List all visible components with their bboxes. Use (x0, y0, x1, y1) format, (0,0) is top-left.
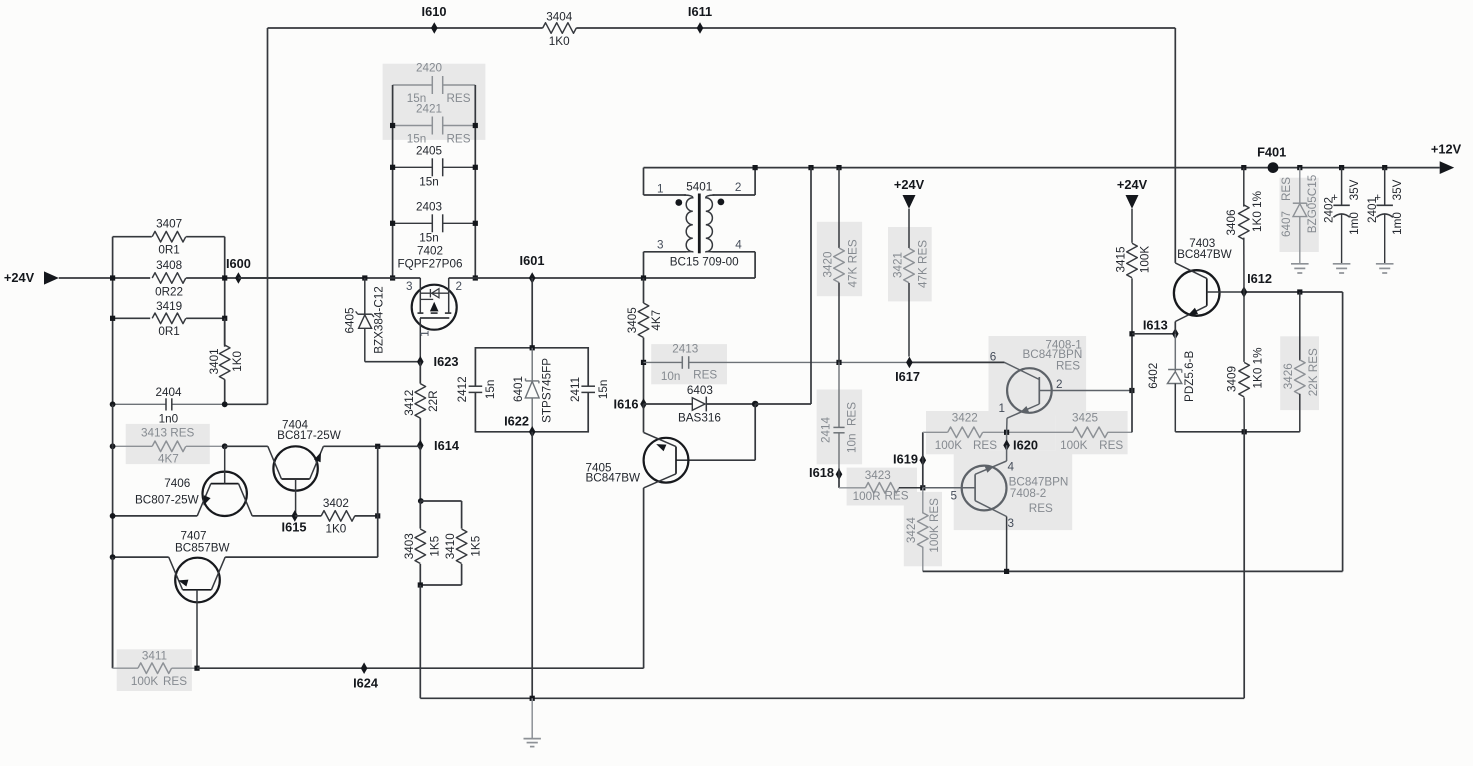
wire top-left drop (267, 28, 269, 404)
capacitor 2403 (393, 222, 433, 224)
node I610 (431, 22, 438, 34)
capacitor 2405 (393, 166, 433, 168)
svg-text:2: 2 (735, 181, 742, 194)
svg-text:2414: 2414 (819, 417, 832, 444)
svg-text:I617: I617 (895, 369, 920, 384)
transformer 5401 BC15 709-00 (644, 168, 756, 278)
svg-text:RES: RES (1056, 360, 1080, 373)
shade box 3423 (847, 468, 917, 506)
transformer bottom legs (644, 251, 687, 253)
svg-text:BC847BW: BC847BW (586, 471, 641, 484)
junction dot BAS316 cathode (752, 401, 759, 408)
resistor 3413 (RES) (113, 445, 153, 447)
svg-text:3: 3 (406, 280, 413, 293)
svg-text:3413 RES: 3413 RES (141, 427, 194, 440)
wire I612 row (1244, 291, 1343, 293)
resistor 3406 (1243, 168, 1245, 207)
node I600 (235, 272, 242, 284)
junction dot I613 row left (1129, 331, 1134, 336)
svg-text:2402: 2402 (1323, 197, 1336, 223)
svg-text:3403: 3403 (403, 533, 416, 559)
svg-text:100K: 100K (1060, 439, 1088, 452)
svg-text:I620: I620 (1013, 437, 1038, 452)
node I620 (1003, 440, 1010, 452)
capacitor 2412 (469, 385, 483, 387)
svg-text:3423: 3423 (865, 469, 891, 482)
svg-text:100K: 100K (131, 675, 159, 688)
svg-text:4K7: 4K7 (158, 452, 179, 465)
svg-text:1K5: 1K5 (469, 535, 482, 556)
svg-text:BZG05C15: BZG05C15 (1306, 174, 1319, 233)
svg-text:0R22: 0R22 (155, 285, 183, 298)
svg-text:BC807-25W: BC807-25W (135, 493, 199, 506)
resistor 3402 (295, 515, 322, 517)
svg-text:100K: 100K (1138, 246, 1151, 274)
svg-text:6401: 6401 (512, 376, 525, 402)
svg-text:10n: 10n (661, 370, 681, 383)
capacitor 2413 (RES) (644, 361, 683, 363)
svg-text:2403: 2403 (416, 200, 442, 213)
svg-text:I622: I622 (504, 414, 529, 429)
junction dot 7408-2 collector (1004, 569, 1009, 574)
svg-text:I623: I623 (434, 354, 459, 369)
wire transformer bottom rail (644, 277, 756, 279)
svg-text:22K RES: 22K RES (1307, 348, 1320, 396)
junction dot I620 top (1004, 430, 1009, 435)
capacitor 2404 (113, 403, 166, 405)
junction dots cap stack (390, 123, 395, 128)
shade box 3413 (126, 424, 210, 464)
svg-text:PDZ5.6-B: PDZ5.6-B (1183, 350, 1196, 402)
svg-text:3422: 3422 (952, 412, 978, 425)
node I624 (361, 662, 368, 674)
svg-text:4: 4 (735, 239, 742, 252)
resistor 3409 (1243, 292, 1245, 362)
wire 7403 emitter to I613 (1174, 322, 1176, 334)
svg-text:2: 2 (1056, 378, 1063, 391)
svg-text:1: 1 (657, 182, 664, 195)
wire I614 down (419, 445, 421, 501)
transistor 7406 BC807-25W (135, 446, 252, 516)
svg-text:3410: 3410 (444, 533, 457, 560)
wire left rail lower (112, 404, 114, 446)
junction dot 2413 row left (641, 360, 646, 365)
svg-text:3419: 3419 (156, 300, 182, 313)
svg-text:I614: I614 (434, 438, 460, 453)
svg-text:RES: RES (1280, 177, 1293, 201)
diode 6405 BZX384-C12 (362, 275, 367, 280)
svg-text:1K0: 1K0 (549, 35, 570, 48)
node I611 (697, 22, 704, 34)
svg-text:1n0: 1n0 (159, 412, 179, 425)
wire right loop up to I612 row (1342, 292, 1344, 571)
shade box 2413 (651, 344, 727, 384)
mosfet channel contacts (418, 312, 424, 314)
shade box 3426 (1280, 336, 1319, 410)
shade box 2414 (817, 390, 863, 465)
wire I619 vertical (922, 432, 924, 488)
node I617 (906, 357, 913, 369)
junction dot transformer bottom (641, 275, 646, 280)
svg-text:2404: 2404 (155, 386, 182, 399)
capacitor 2421 (RES) (393, 125, 433, 127)
svg-text:3405: 3405 (626, 307, 639, 334)
wire 7406 collector to I615 (252, 515, 295, 517)
svg-text:3407: 3407 (156, 218, 182, 231)
wire bottom ground rail (532, 697, 1244, 699)
svg-text:4K7: 4K7 (650, 310, 663, 331)
svg-text:BC15 709-00: BC15 709-00 (670, 255, 739, 268)
mosfet gate bar (420, 317, 449, 319)
svg-text:3: 3 (1008, 517, 1015, 530)
wire I624 rail (197, 667, 644, 669)
svg-text:1K0: 1K0 (326, 523, 347, 536)
wire I622 down to ground rail (531, 432, 533, 699)
wire 3403 bottom down to lowest rail (419, 585, 421, 698)
svg-text:+12V: +12V (1431, 141, 1462, 156)
wire x377 vertical (377, 446, 379, 557)
svg-text:+24V: +24V (894, 177, 925, 192)
diode 6401 STPS745FP (531, 348, 533, 381)
svg-text:6: 6 (990, 350, 997, 363)
svg-text:2405: 2405 (416, 144, 443, 157)
wire resistor bank left rail (112, 237, 114, 278)
wire resistor bank right rail (224, 237, 226, 278)
capacitor 2402 (1341, 168, 1343, 206)
svg-text:I613: I613 (1143, 318, 1168, 333)
svg-text:F401: F401 (1257, 144, 1286, 159)
svg-text:1: 1 (999, 402, 1006, 415)
transistor 7407 BC857BW (169, 530, 230, 669)
svg-text:+24V: +24V (4, 270, 35, 285)
resistor 3408 (152, 273, 186, 284)
svg-text:2: 2 (455, 280, 462, 293)
mosfet gate-substrate detail (420, 298, 433, 300)
svg-text:RES: RES (693, 368, 717, 381)
svg-text:2420: 2420 (416, 62, 443, 75)
svg-text:3409: 3409 (1225, 366, 1238, 392)
wire BAS316 node to top rail (755, 403, 811, 405)
transistor 7404 BC817-25W (268, 418, 341, 515)
svg-text:100K: 100K (935, 439, 963, 452)
svg-text:BC847BW: BC847BW (1177, 248, 1232, 261)
wire top rail I610-I611 (268, 27, 543, 29)
node I623 (417, 356, 424, 368)
shade box 3425 (1055, 411, 1127, 454)
svg-text:3404: 3404 (546, 10, 573, 23)
wire I613 row (1132, 333, 1175, 335)
junction dot 6401 top (530, 345, 535, 350)
svg-text:7402: 7402 (417, 245, 443, 258)
fuse point F401 (1268, 162, 1279, 173)
node I615 (292, 510, 299, 522)
svg-text:15n: 15n (484, 380, 497, 400)
wire I620 stub (1006, 432, 1008, 445)
shade box 3421 (888, 227, 932, 301)
wire I600 to mosfet (238, 277, 364, 279)
svg-text:3406: 3406 (1225, 209, 1238, 235)
shade box 2420/2421 (383, 64, 486, 140)
svg-text:3421: 3421 (891, 252, 904, 278)
svg-text:I600: I600 (226, 256, 251, 271)
svg-text:RES: RES (884, 489, 908, 502)
resistor 3405 (643, 278, 645, 303)
ground (2401) (1376, 263, 1394, 265)
resistor 3422 (RES) (923, 431, 948, 433)
svg-text:3402: 3402 (323, 497, 349, 510)
svg-text:5: 5 (950, 490, 957, 503)
mosfet body-diode row (420, 292, 448, 294)
diode 6403 BAS316 (644, 403, 693, 405)
svg-text:15n: 15n (419, 232, 439, 245)
svg-text:I619: I619 (893, 451, 918, 466)
svg-text:47K RES: 47K RES (916, 240, 929, 288)
resistor 3404 (543, 23, 577, 34)
capacitor 2420 (RES) (393, 84, 433, 86)
svg-text:2421: 2421 (416, 102, 442, 115)
junction dot 6402 row (1242, 429, 1247, 434)
svg-text:RES: RES (446, 133, 470, 146)
junction dot 3426 top (1297, 289, 1302, 294)
svg-text:BC817-25W: BC817-25W (277, 429, 341, 442)
svg-text:35V: 35V (1348, 179, 1361, 200)
wire cap stack left rail (392, 85, 394, 278)
node I613 (1172, 328, 1179, 340)
resistor 3401 (224, 318, 226, 345)
svg-text:I612: I612 (1247, 271, 1272, 286)
capacitor 2414 (RES) (838, 362, 840, 427)
svg-text:6407: 6407 (1280, 211, 1293, 237)
resistor 3426 (RES) (1299, 292, 1301, 361)
wire 3409 line down to bottom (1243, 432, 1245, 699)
svg-text:1K5: 1K5 (429, 535, 442, 556)
svg-text:I615: I615 (282, 520, 307, 535)
wire I616 to 7405 emitter (643, 404, 645, 433)
wire bottom rail 7408 (923, 570, 1343, 572)
svg-text:BC857BW: BC857BW (175, 541, 230, 554)
wire 7405 collector down (643, 488, 645, 668)
svg-text:RES: RES (1029, 502, 1053, 515)
svg-text:3420: 3420 (821, 251, 834, 278)
wire BAS316 node down to 7405 base (754, 404, 756, 460)
resistor 3412 (419, 362, 421, 384)
svg-text:1K0 1%: 1K0 1% (1251, 191, 1264, 232)
capacitor 2401 (1384, 168, 1386, 206)
resistor 3410 parallel loop (420, 500, 461, 502)
svg-text:6405: 6405 (343, 307, 356, 334)
shade box 3422 (926, 411, 989, 454)
junction dot x377 top (375, 444, 380, 449)
wire cap stack right rail (474, 85, 476, 278)
wire 6402 bottom row (1175, 431, 1300, 433)
svg-text:3401: 3401 (208, 348, 221, 374)
svg-text:2412: 2412 (456, 376, 469, 402)
svg-text:3426: 3426 (1282, 363, 1295, 389)
node I616 (640, 398, 647, 410)
capacitor 2411 (581, 385, 595, 387)
wire I617 to 7408-1 base (909, 361, 1004, 363)
junction dot 7407 base bottom (194, 666, 199, 671)
wire 7407 base row (225, 556, 378, 558)
transistor 7408-1 BC847BPN (RES) (1005, 338, 1132, 432)
wire 3415 down to 3425 corner (1131, 334, 1133, 433)
svg-text:5401: 5401 (686, 181, 712, 194)
svg-text:47K RES: 47K RES (847, 239, 860, 287)
node I601 (529, 272, 536, 284)
node I619 (920, 454, 927, 466)
svg-text:I616: I616 (614, 396, 639, 411)
resistor 3407 (113, 236, 152, 238)
svg-text:I610: I610 (422, 4, 447, 19)
svg-text:I624: I624 (353, 675, 379, 690)
transistor 7408-2 BC847BPN (RES) (923, 445, 1069, 571)
wire 7406 emitter row (113, 515, 198, 517)
svg-text:100K RES: 100K RES (928, 498, 941, 553)
shade box 3420 (817, 222, 862, 296)
node I612 (1241, 286, 1248, 298)
shade box 3411 (117, 649, 192, 691)
transformer core (698, 194, 701, 254)
svg-text:2411: 2411 (569, 377, 582, 402)
junction dot collector 7408-1 (1129, 388, 1134, 393)
junction dot 3403 bottom (418, 582, 423, 587)
svg-text:+24V: +24V (1117, 177, 1148, 192)
svg-text:1K0: 1K0 (231, 351, 244, 372)
wire I601 down to 6401 box (531, 278, 533, 348)
junction dot ground rail (530, 696, 535, 701)
svg-text:3424: 3424 (905, 517, 918, 544)
transformer phasing dots (675, 199, 682, 206)
ground (2402) (1333, 263, 1351, 265)
wire 3413 row to 7404 (225, 445, 268, 447)
svg-text:BZX384-C12: BZX384-C12 (373, 286, 386, 354)
diode 6407 BZG05C15 (RES) (1299, 168, 1301, 204)
rectifier block 6401 outline (475, 348, 588, 432)
resistor 3403 (419, 501, 421, 529)
resistor 3415 (1131, 209, 1133, 243)
junction dot 3403 top (418, 498, 424, 504)
svg-text:3425: 3425 (1072, 412, 1099, 425)
wire 3405 to I616 (643, 362, 645, 404)
junction dot x377 mid (375, 513, 380, 518)
svg-text:BAS316: BAS316 (678, 411, 721, 424)
ground (6407) (1291, 263, 1309, 265)
junction dot 2414 top (836, 360, 841, 365)
svg-text:2401: 2401 (1366, 197, 1379, 223)
wire I618 to 3423 (838, 469, 840, 488)
shade box 7408-1 (989, 336, 1087, 416)
wire +12V rail (755, 167, 1440, 169)
svg-text:7406: 7406 (164, 477, 190, 490)
resistor 3421 (RES) (908, 209, 910, 248)
svg-text:6402: 6402 (1147, 363, 1160, 389)
svg-text:RES: RES (1099, 439, 1123, 452)
svg-text:STPS745FP: STPS745FP (540, 358, 553, 423)
svg-text:10n: 10n (846, 433, 859, 453)
wire top-right drop to 7403 collector (1174, 28, 1176, 263)
mosfet gate lead to I623 (419, 318, 421, 362)
svg-text:0R1: 0R1 (158, 325, 179, 338)
power +12V output (1440, 161, 1455, 174)
resistor 3420 (RES) (838, 168, 840, 248)
ground (center) (531, 698, 533, 738)
svg-text:22R: 22R (427, 390, 440, 411)
svg-text:3408: 3408 (156, 259, 182, 272)
svg-text:3: 3 (657, 239, 664, 252)
svg-text:RES: RES (846, 402, 859, 426)
svg-text:RES: RES (446, 92, 470, 105)
shade box 6407 (1280, 178, 1319, 252)
diode 6402 PDZ5.6-B (1174, 334, 1176, 371)
junction dots resistor bank (110, 275, 115, 280)
svg-text:7408-2: 7408-2 (1010, 487, 1046, 500)
shade box 7408 bridge (989, 416, 1056, 451)
svg-text:I618: I618 (809, 465, 834, 480)
node I622 (529, 426, 536, 438)
junction dots +12V rail (753, 165, 758, 170)
svg-text:3411: 3411 (142, 649, 167, 662)
svg-text:0R1: 0R1 (158, 243, 179, 256)
svg-text:I601: I601 (520, 253, 545, 268)
svg-text:RES: RES (163, 675, 187, 688)
shade box 7408-2 (954, 451, 1072, 530)
transistor 7403 BC847BW (1174, 237, 1244, 322)
svg-text:3412: 3412 (403, 390, 416, 416)
resistor 3425 (RES) (1007, 431, 1074, 433)
junction dot 3423/3424/base (920, 485, 925, 490)
resistor 3424 (RES) (922, 488, 924, 514)
svg-text:1m0: 1m0 (1391, 212, 1404, 235)
svg-text:4: 4 (1008, 460, 1015, 473)
resistor 3419 (113, 317, 151, 319)
svg-text:FQPF27P06: FQPF27P06 (398, 258, 463, 271)
svg-text:100R: 100R (853, 490, 881, 503)
svg-text:3415: 3415 (1114, 246, 1127, 273)
svg-text:35V: 35V (1391, 179, 1404, 200)
node I618 (836, 469, 843, 481)
shade box 3424 (904, 492, 942, 566)
svg-text:2413: 2413 (672, 343, 698, 356)
svg-text:15n: 15n (597, 380, 610, 400)
svg-text:1m0: 1m0 (1348, 212, 1361, 235)
svg-text:1: 1 (418, 330, 431, 337)
svg-text:6403: 6403 (687, 384, 713, 397)
resistor 3411 (RES) (112, 557, 114, 668)
svg-text:1K0 1%: 1K0 1% (1251, 348, 1264, 389)
svg-text:15n: 15n (419, 175, 439, 188)
wire 7404 emitter to I614 row (323, 445, 377, 447)
svg-text:RES: RES (973, 439, 997, 452)
transistor 7405 BC847BW (585, 433, 688, 488)
svg-text:I611: I611 (688, 4, 712, 19)
wire +24V feed (59, 277, 150, 279)
resistor 3423 (RES) (839, 487, 866, 489)
node I614 (417, 440, 424, 452)
